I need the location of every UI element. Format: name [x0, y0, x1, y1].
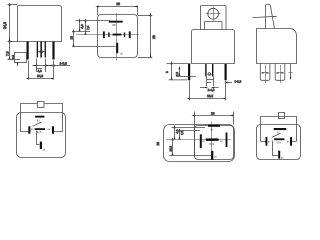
blade 87a middle [35, 128, 45, 130]
blade 85 right vertical [129, 31, 131, 38]
vertical feature line [194, 126, 196, 156]
pin blade thin pair [205, 64, 206, 76]
blade 30 bottom [40, 142, 42, 149]
bracket tab side [253, 5, 277, 29]
relay footprint outline [195, 126, 234, 160]
relay body side view [257, 29, 297, 64]
mounting tab [38, 102, 45, 108]
pin blade wide left (6,3) [188, 64, 190, 80]
body outline top view [98, 15, 138, 58]
svg-text:86: 86 [31, 128, 34, 131]
dimension 28 width [98, 2, 138, 15]
blade 86 left [266, 137, 268, 146]
thin blade 3 edge-on [290, 63, 292, 79]
wire middle to bottom blade [37, 131, 40, 145]
blade 30 top horizontal [109, 21, 123, 23]
svg-text:8: 8 [165, 71, 169, 73]
svg-text:10,2: 10,2 [169, 146, 173, 152]
svg-text:2-4,8: 2-4,8 [208, 88, 215, 92]
wire middle to bottom blade [273, 141, 279, 156]
svg-text:2,5: 2,5 [11, 55, 15, 59]
left dims 8 / 2,5 of view3 [165, 64, 196, 80]
blade 85 right [290, 137, 292, 146]
svg-text:4,8: 4,8 [175, 129, 179, 133]
svg-text:7,5: 7,5 [180, 131, 184, 135]
svg-text:4,8: 4,8 [38, 69, 43, 73]
svg-text:2,5: 2,5 [175, 72, 179, 76]
dimension 28 top [195, 112, 234, 126]
bracket hole [208, 8, 219, 19]
svg-text:86: 86 [202, 140, 205, 143]
svg-text:30: 30 [281, 156, 284, 159]
bottom dimension 16,2 [189, 81, 225, 101]
svg-text:30: 30 [214, 156, 217, 159]
pin blade A wide left [27, 42, 29, 60]
blade 85 right [52, 126, 54, 133]
blade 87 top [208, 125, 220, 127]
svg-text:28: 28 [156, 142, 160, 146]
blade 86 left vertical [103, 31, 105, 38]
svg-text:85: 85 [220, 140, 223, 143]
dimension 24,5 body height [3, 5, 17, 42]
blade 87 bottom vertical [116, 43, 118, 53]
svg-text:30: 30 [120, 53, 123, 56]
blade 1 centerline [265, 65, 267, 83]
dim 2-4,8 [200, 76, 219, 92]
pin hole circle view3 [208, 73, 211, 76]
svg-text:85: 85 [48, 128, 51, 131]
blade 86 left [200, 134, 202, 148]
blade 30 bottom [211, 151, 213, 160]
svg-text:87: 87 [37, 118, 41, 122]
blade 87 top [35, 116, 44, 118]
wide blade 1 outline [260, 63, 270, 80]
blade 85 right [226, 133, 228, 148]
svg-text:1-0,8: 1-0,8 [60, 61, 67, 65]
blade 87 top [274, 128, 287, 130]
svg-text:30: 30 [43, 149, 46, 152]
svg-text:85: 85 [287, 140, 290, 143]
dimension 1-0,8 blade thickness [49, 61, 71, 65]
side lug detail on pin A [11, 53, 27, 67]
body outline [257, 125, 301, 160]
pin blade wide right [225, 64, 227, 80]
svg-text:87A: 87A [209, 142, 214, 146]
blade 87a middle [274, 138, 284, 140]
svg-text:7,5: 7,5 [86, 25, 90, 30]
svg-text:87A: 87A [277, 142, 282, 145]
pin blade D [45, 42, 46, 58]
svg-text:86: 86 [268, 140, 271, 143]
svg-text:24,8: 24,8 [37, 74, 43, 78]
svg-text:24,5: 24,5 [3, 22, 7, 29]
pin blade C center [40, 42, 42, 58]
blade 2 centerline [280, 65, 282, 83]
svg-text:7,5: 7,5 [6, 51, 10, 56]
inner stacked dims [169, 128, 212, 156]
blade 86 left [28, 126, 30, 133]
relay body front view [18, 6, 62, 42]
socket outline [164, 125, 235, 162]
svg-text:4,8: 4,8 [80, 24, 84, 29]
wire frame [261, 117, 297, 142]
switch contact arm [272, 133, 281, 137]
left small dims 4,8 / 7,5 / 13 [70, 21, 116, 47]
dimension 7 pin length [6, 42, 21, 60]
mounting bracket [201, 6, 227, 30]
wire tab to right blade [44, 104, 63, 132]
body outline bottom view [17, 113, 66, 158]
svg-text:16,2: 16,2 [207, 94, 213, 98]
centerlines [166, 139, 231, 141]
svg-text:28: 28 [152, 35, 156, 39]
vertical centerline [116, 13, 118, 61]
wide blade 2 outline [275, 63, 285, 80]
dim 3-6,3 [227, 80, 241, 84]
blade 30 bottom [278, 151, 280, 159]
switch contact arm [33, 122, 42, 126]
svg-text:28: 28 [211, 112, 215, 116]
pin blade B [37, 42, 38, 58]
svg-text:13: 13 [70, 36, 74, 40]
svg-text:28: 28 [116, 2, 120, 6]
dimension 28 height right [138, 16, 156, 58]
svg-text:87A: 87A [37, 131, 42, 134]
body bottom extension left [8, 41, 18, 43]
relay body with bracket [192, 30, 235, 64]
mounting tab [279, 113, 285, 119]
pin C hole circle [40, 50, 43, 53]
svg-text:3-6,3: 3-6,3 [235, 80, 242, 84]
bottom dimension pins span [29, 61, 54, 80]
dimension 4,8 middle pins [33, 59, 50, 73]
svg-text:87: 87 [211, 127, 215, 131]
horizontal centerline [76, 34, 139, 36]
center cross pin [113, 34, 122, 36]
pin blade E wide right [52, 42, 54, 60]
blade 87a middle [206, 138, 219, 141]
wire tab to left blade [21, 104, 38, 132]
svg-text:30: 30 [112, 23, 116, 27]
